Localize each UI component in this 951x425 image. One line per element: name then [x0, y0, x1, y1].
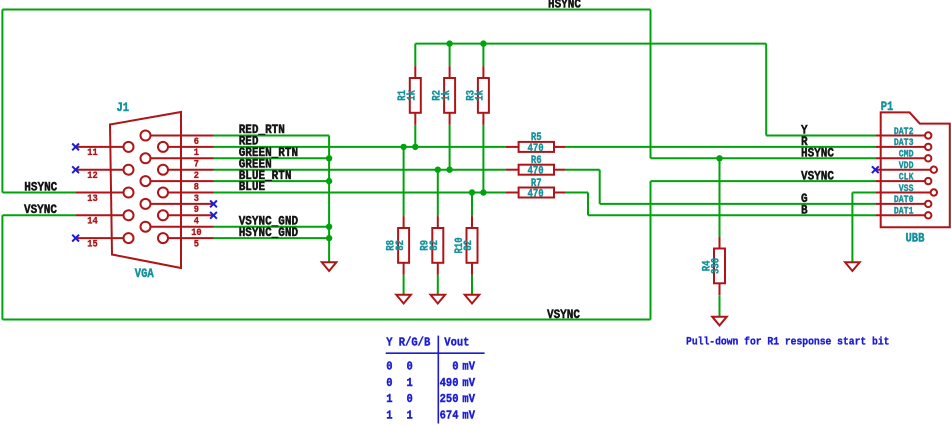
svg-text:UBB: UBB: [906, 231, 925, 246]
resistor R10 82: [454, 216, 477, 275]
svg-text:CLK: CLK: [899, 171, 914, 183]
P1 pin DAT3: [875, 136, 931, 150]
wire Y vertical: [765, 44, 767, 136]
wire R net R5 to DAT3: [565, 146, 875, 148]
wire BLUE_RTN: [214, 180, 330, 182]
wire VSS horizontal: [852, 192, 875, 194]
svg-text:mV: mV: [462, 376, 475, 390]
J1 reference: [117, 100, 130, 115]
node B label: [801, 203, 808, 218]
J1 pin 5: [158, 233, 214, 250]
svg-text:82: 82: [463, 240, 475, 251]
P1 pin CLK: [875, 171, 931, 185]
no-connect VDD: [872, 166, 879, 173]
svg-text:1k: 1k: [440, 90, 453, 101]
svg-text:VGA: VGA: [135, 266, 155, 281]
J1 pin 7: [141, 153, 214, 170]
node VSYNC left label: [24, 202, 57, 217]
wire R10 bottom: [471, 275, 473, 296]
svg-text:B: B: [801, 203, 808, 218]
wire G net vertical: [599, 170, 601, 204]
svg-text:CMD: CMD: [899, 148, 914, 160]
P1 pin VDD: [875, 159, 937, 173]
svg-text:8: 8: [194, 181, 199, 193]
ground R4: [712, 317, 727, 326]
node RED_RTN label: [239, 122, 285, 137]
wire HSYNC right vertical: [650, 10, 652, 159]
junction BLUE_RTN: [326, 178, 332, 184]
svg-text:0: 0: [386, 376, 392, 390]
no-connect pin 11: [72, 144, 79, 151]
svg-text:mV: mV: [462, 409, 475, 423]
J1 pin 1: [158, 142, 214, 159]
svg-text:mV: mV: [462, 360, 475, 374]
svg-text:11: 11: [87, 147, 98, 159]
svg-text:0: 0: [386, 360, 392, 374]
wire Y to DAT2: [766, 135, 875, 137]
resistor R6 470: [506, 155, 565, 178]
wire RED_RTN: [214, 135, 330, 137]
wire R10 top: [471, 193, 473, 217]
J1 value VGA: [135, 266, 155, 281]
J1 pin 9: [141, 199, 214, 216]
svg-text:P1: P1: [881, 99, 894, 114]
J1 pin 6: [141, 131, 214, 148]
wire BLUE row: [214, 192, 506, 194]
svg-text:5: 5: [194, 238, 199, 250]
junction GREEN R9: [435, 167, 441, 173]
connector J1 body: [110, 112, 181, 268]
svg-text:250: 250: [440, 392, 459, 406]
no-connect pin 15: [72, 235, 79, 242]
svg-text:Y R/G/B: Y R/G/B: [386, 336, 430, 350]
junction rail R3: [480, 40, 486, 46]
J1 pin 8: [141, 176, 214, 193]
wire R4 bottom: [719, 296, 721, 317]
svg-text:82: 82: [395, 240, 407, 251]
J1 pin 13: [76, 188, 134, 205]
svg-text:VSS: VSS: [899, 182, 914, 194]
node VSYNC_GND label: [239, 214, 298, 229]
svg-text:0: 0: [407, 392, 413, 406]
P1 value UBB: [906, 231, 925, 246]
wire VSYNC left vertical: [1, 215, 3, 319]
junction RED R1: [412, 144, 418, 150]
svg-text:14: 14: [87, 215, 98, 227]
svg-text:J1: J1: [117, 100, 130, 115]
node BLUE label: [239, 179, 265, 194]
svg-text:1: 1: [407, 376, 413, 390]
wire HSYNC to pin 13: [2, 192, 75, 194]
J1 pin 4: [158, 210, 214, 227]
no-connect pin 4: [210, 212, 217, 219]
svg-text:VSYNC: VSYNC: [801, 169, 834, 184]
table Y R/G/B Vout: [386, 336, 485, 424]
wire VSS vertical: [851, 193, 853, 262]
svg-text:HSYNC: HSYNC: [24, 180, 57, 195]
svg-text:DAT0: DAT0: [894, 193, 914, 205]
J1 pin 15: [76, 233, 134, 250]
svg-text:DAT2: DAT2: [894, 125, 914, 137]
P1 pin VSS: [875, 182, 937, 196]
svg-text:0: 0: [452, 360, 458, 374]
svg-text:470: 470: [528, 166, 544, 178]
wire RED row: [214, 146, 506, 148]
ground RTN: [322, 262, 337, 271]
wire R8 top: [403, 147, 405, 216]
node Y label: [801, 123, 808, 138]
wire HSYNC top horizontal: [2, 9, 650, 11]
P1 pin CMD: [875, 148, 931, 162]
wire R2 top: [449, 44, 451, 67]
wire R3 top: [482, 44, 484, 67]
resistor R9 82: [420, 216, 443, 275]
wire GREEN row: [214, 169, 506, 171]
svg-text:82: 82: [429, 240, 441, 251]
svg-text:HSYNC_GND: HSYNC_GND: [239, 225, 298, 240]
wire R3 bottom: [482, 125, 484, 193]
svg-text:1: 1: [194, 147, 199, 159]
svg-text:VDD: VDD: [899, 159, 914, 171]
wire R2 bottom: [449, 125, 451, 170]
node HSYNC left label: [24, 180, 57, 195]
node GREEN_RTN label: [239, 145, 298, 160]
node HSYNC_GND label: [239, 225, 298, 240]
svg-text:470: 470: [528, 189, 544, 201]
wire VSYNC_GND: [214, 226, 330, 228]
svg-text:0: 0: [407, 360, 413, 374]
P1 pin DAT1: [875, 205, 931, 219]
svg-text:1k: 1k: [474, 90, 487, 101]
no-connect pin 12: [72, 166, 79, 173]
node G label: [801, 191, 808, 206]
svg-text:330: 330: [711, 258, 723, 274]
wire RTN vertical to ground: [328, 136, 330, 262]
svg-text:1: 1: [386, 392, 392, 406]
P1 pin DAT0: [875, 193, 931, 207]
node HSYNC top label: [548, 0, 581, 12]
junction R4 CMD: [716, 155, 722, 161]
wire VSYNC to CLK: [651, 180, 876, 182]
svg-text:1: 1: [407, 409, 413, 423]
ground VSS: [845, 262, 860, 271]
svg-text:15: 15: [87, 238, 98, 250]
wire R9 bottom: [437, 275, 439, 296]
ground R10: [465, 295, 480, 304]
svg-text:9: 9: [194, 204, 199, 216]
wire B net to DAT1: [588, 214, 875, 216]
P1 reference: [881, 99, 894, 114]
resistor R3 1k: [466, 66, 489, 125]
svg-text:HSYNC: HSYNC: [801, 146, 834, 161]
svg-text:4: 4: [194, 215, 199, 227]
wire GREEN_RTN: [214, 157, 330, 159]
svg-text:7: 7: [194, 158, 199, 170]
svg-text:mV: mV: [462, 392, 475, 406]
svg-text:VSYNC: VSYNC: [24, 202, 57, 217]
junction RED R8: [400, 144, 406, 150]
svg-text:BLUE: BLUE: [239, 179, 265, 194]
P1 pin DAT2: [875, 125, 931, 139]
no-connect pin 9: [210, 201, 217, 208]
wire VSYNC up vertical: [650, 181, 652, 319]
svg-text:2: 2: [194, 169, 199, 181]
junction GREEN_RTN: [326, 155, 332, 161]
J1 pin 12: [76, 165, 134, 182]
wire B net vertical: [587, 193, 589, 216]
J1 pin 3: [158, 188, 214, 205]
resistor R2 1k: [432, 66, 455, 125]
svg-text:Pull-down for R1 response star: Pull-down for R1 response start bit: [686, 336, 889, 349]
svg-text:674: 674: [440, 409, 459, 423]
wire R1 bottom: [414, 125, 416, 147]
node HSYNC label: [801, 146, 834, 161]
wire HSYNC to CMD: [651, 157, 876, 159]
svg-text:HSYNC: HSYNC: [548, 0, 581, 12]
junction rail R2: [446, 40, 452, 46]
wire B net from R7: [565, 192, 588, 194]
wire VSYNC to pin 14: [2, 214, 75, 216]
J1 pin 14: [76, 210, 134, 227]
wire R1 top: [414, 44, 416, 67]
svg-text:12: 12: [87, 169, 98, 181]
resistor R7 470: [506, 178, 565, 201]
svg-text:6: 6: [194, 135, 199, 147]
ground R8: [396, 295, 411, 304]
svg-text:10: 10: [191, 226, 202, 238]
wire HSYNC_GND: [214, 237, 330, 239]
wire G net to DAT0: [600, 203, 876, 205]
svg-text:DAT3: DAT3: [894, 136, 914, 148]
junction HSYNC_GND: [326, 235, 332, 241]
resistor R8 82: [386, 216, 409, 275]
ground R9: [431, 295, 446, 304]
connector P1 body: [881, 112, 950, 227]
svg-text:3: 3: [194, 192, 199, 204]
node RED label: [239, 134, 259, 149]
junction BLUE R3: [480, 189, 486, 195]
J1 pin 2: [158, 165, 214, 182]
svg-text:DAT1: DAT1: [894, 205, 914, 217]
svg-text:1k: 1k: [406, 90, 419, 101]
wire VSYNC bottom horizontal: [2, 319, 650, 321]
J1 pin 10: [141, 222, 214, 239]
node GREEN label: [239, 157, 272, 172]
svg-text:Vout: Vout: [444, 336, 469, 350]
node BLUE_RTN label: [239, 168, 292, 183]
node VSYNC bottom label: [547, 307, 580, 322]
node R label: [801, 134, 808, 149]
svg-text:490: 490: [440, 376, 459, 390]
J1 pin 11: [76, 142, 134, 159]
wire R8 bottom: [403, 275, 405, 296]
note pull-down: [686, 336, 889, 349]
node VSYNC label: [801, 169, 834, 184]
junction BLUE R10: [469, 189, 475, 195]
svg-text:470: 470: [528, 143, 544, 155]
resistor R5 470: [506, 132, 565, 155]
svg-text:13: 13: [87, 192, 98, 204]
junction GREEN R2: [446, 167, 452, 173]
junction VSYNC_GND: [326, 224, 332, 230]
resistor R1 1k: [397, 66, 420, 125]
resistor R4 330: [702, 237, 725, 296]
wire Y rail: [415, 43, 766, 45]
svg-text:1: 1: [386, 409, 392, 423]
svg-text:VSYNC: VSYNC: [547, 307, 580, 322]
wire R9 top: [437, 170, 439, 216]
wire G net from R6: [565, 169, 600, 171]
wire HSYNC left vertical: [1, 10, 3, 193]
wire R4 top: [719, 158, 721, 236]
